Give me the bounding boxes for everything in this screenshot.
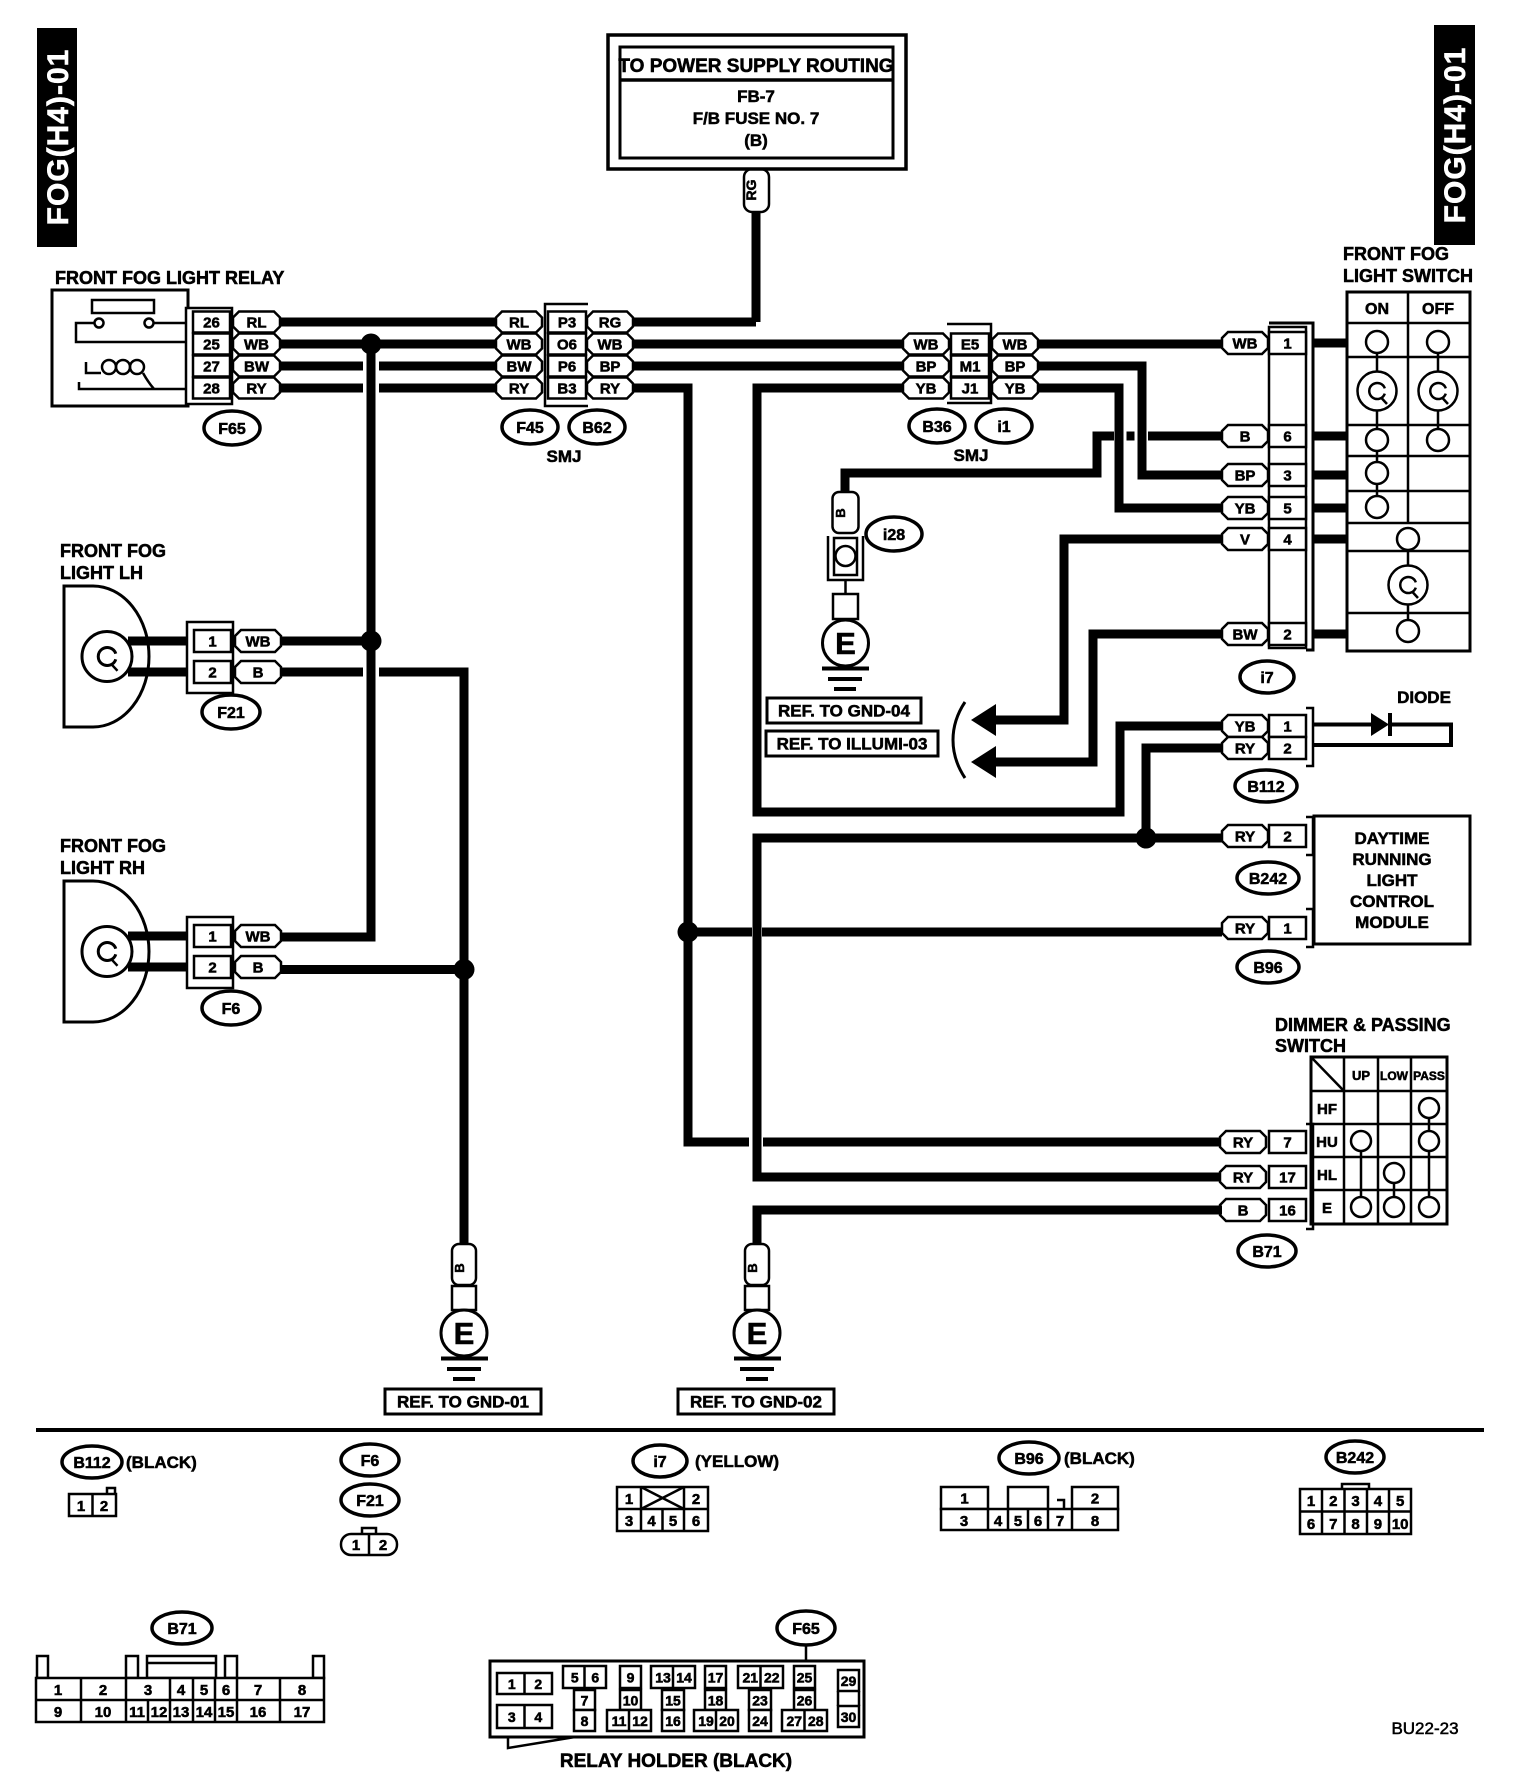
wire B LH to ground (break at crossing)	[281, 672, 464, 1244]
wire BW relay to SMJ (break at crossing)	[280, 362, 497, 371]
svg-text:REF. TO GND-02: REF. TO GND-02	[690, 1393, 822, 1412]
svg-text:7: 7	[1056, 1513, 1064, 1530]
SMJ bracket left	[545, 304, 588, 406]
svg-text:F21: F21	[356, 1493, 384, 1510]
svg-text:14: 14	[196, 1704, 213, 1721]
svg-text:2: 2	[379, 1537, 387, 1554]
SMJ F45/B62 pins left RL WB BW RY	[496, 312, 542, 399]
svg-text:B96: B96	[1014, 1451, 1043, 1468]
svg-text:PASS: PASS	[1413, 1069, 1445, 1083]
title block FOG(H4)-01 right	[1434, 25, 1475, 245]
svg-text:B: B	[253, 664, 264, 681]
svg-text:8: 8	[298, 1682, 306, 1699]
svg-text:2: 2	[1091, 1490, 1099, 1507]
svg-text:E: E	[1322, 1200, 1332, 1217]
svg-text:DIODE: DIODE	[1397, 688, 1451, 707]
svg-text:F65: F65	[218, 421, 246, 438]
DRL module pin RY 1 B96	[1222, 909, 1313, 947]
junction dot WB LH	[361, 631, 382, 652]
svg-text:30: 30	[841, 1709, 857, 1725]
svg-text:B: B	[833, 508, 848, 517]
svg-text:1: 1	[54, 1682, 62, 1699]
svg-text:SWITCH: SWITCH	[1275, 1036, 1346, 1056]
svg-text:1: 1	[508, 1676, 516, 1692]
svg-text:21: 21	[742, 1670, 758, 1686]
front fog light LH label	[60, 541, 166, 583]
svg-text:B: B	[253, 959, 264, 976]
wire B RH	[281, 965, 464, 974]
svg-text:9: 9	[54, 1704, 62, 1721]
wire BP SMJ to SMJ right	[633, 362, 905, 371]
title block FOG(H4)-01 left	[37, 28, 77, 247]
svg-text:FB-7: FB-7	[737, 87, 775, 106]
svg-text:12: 12	[151, 1704, 168, 1721]
svg-text:YB: YB	[1235, 500, 1256, 517]
relay F65 body	[52, 290, 188, 406]
connector label B112	[1235, 770, 1297, 802]
front fog light switch table	[1347, 292, 1470, 651]
ref box GND-02	[678, 1389, 834, 1414]
svg-text:RELAY HOLDER (BLACK): RELAY HOLDER (BLACK)	[560, 1751, 792, 1772]
DRL module pin RY 2 B242	[1222, 817, 1313, 855]
svg-text:B: B	[1238, 1202, 1249, 1219]
svg-text:4: 4	[647, 1513, 656, 1530]
svg-text:25: 25	[797, 1670, 813, 1686]
svg-text:18: 18	[708, 1693, 724, 1709]
svg-text:B96: B96	[1253, 960, 1282, 977]
svg-text:FRONT FOG: FRONT FOG	[60, 836, 166, 856]
svg-text:8: 8	[581, 1713, 589, 1729]
svg-text:6: 6	[591, 1670, 599, 1686]
svg-text:1: 1	[77, 1498, 85, 1515]
dimmer switch table	[1311, 1057, 1447, 1224]
connector label i1	[976, 409, 1032, 443]
svg-text:FRONT FOG: FRONT FOG	[60, 541, 166, 561]
svg-text:3: 3	[1283, 467, 1291, 484]
svg-text:9: 9	[627, 1670, 635, 1686]
svg-text:BW: BW	[244, 358, 270, 375]
svg-text:16: 16	[1279, 1202, 1296, 1219]
connector label B96	[1237, 951, 1299, 983]
wire WB SMJ to switch pin 1	[1038, 340, 1222, 349]
svg-text:10: 10	[95, 1704, 112, 1721]
svg-text:ON: ON	[1365, 301, 1389, 318]
svg-text:RY: RY	[1235, 920, 1255, 937]
junction dot RY branch	[678, 922, 699, 943]
ref box ILLUMI-03	[766, 731, 938, 756]
svg-text:FOG(H4)-01: FOG(H4)-01	[42, 49, 75, 226]
svg-text:2: 2	[534, 1676, 542, 1692]
svg-text:12: 12	[632, 1713, 648, 1729]
svg-text:7: 7	[1283, 1134, 1291, 1151]
svg-text:17: 17	[1279, 1169, 1296, 1186]
svg-text:26: 26	[797, 1693, 813, 1709]
label relay holder	[560, 1751, 792, 1772]
svg-text:B: B	[1240, 428, 1251, 445]
svg-text:B242: B242	[1336, 1450, 1374, 1467]
svg-text:5: 5	[571, 1670, 579, 1686]
svg-text:O6: O6	[557, 336, 577, 353]
svg-text:B3: B3	[557, 380, 576, 397]
svg-text:2: 2	[99, 1682, 107, 1699]
svg-text:SMJ: SMJ	[547, 447, 582, 466]
svg-text:2: 2	[1329, 1493, 1337, 1510]
svg-text:B112: B112	[73, 1455, 110, 1472]
svg-text:3: 3	[1351, 1493, 1359, 1510]
switch contacts lower section	[1389, 528, 1428, 642]
svg-text:4: 4	[1283, 531, 1292, 548]
svg-text:DIMMER & PASSING: DIMMER & PASSING	[1275, 1015, 1451, 1035]
front fog light relay label	[55, 268, 284, 288]
svg-text:1: 1	[960, 1490, 968, 1507]
svg-text:6: 6	[1034, 1513, 1042, 1530]
svg-text:28: 28	[808, 1713, 824, 1729]
svg-text:5: 5	[1283, 500, 1291, 517]
svg-text:YB: YB	[1005, 380, 1026, 397]
svg-text:F45: F45	[516, 420, 544, 437]
ground terminal square i28	[833, 594, 858, 619]
svg-text:RUNNING: RUNNING	[1352, 850, 1431, 869]
wire WB relay to SMJ	[280, 340, 497, 349]
svg-text:HL: HL	[1317, 1167, 1337, 1184]
svg-text:(YELLOW): (YELLOW)	[695, 1452, 779, 1471]
svg-text:16: 16	[665, 1713, 681, 1729]
svg-text:1: 1	[625, 1491, 633, 1508]
svg-text:1: 1	[1283, 718, 1291, 735]
svg-text:2: 2	[100, 1498, 108, 1515]
wire WB SMJ to SMJ right	[633, 340, 905, 349]
svg-text:10: 10	[623, 1693, 639, 1709]
svg-text:17: 17	[294, 1704, 311, 1721]
wire YB diode vertical	[1120, 722, 1222, 731]
svg-text:RY: RY	[1233, 1169, 1253, 1186]
svg-text:24: 24	[752, 1713, 768, 1729]
svg-text:20: 20	[719, 1713, 735, 1729]
svg-text:14: 14	[676, 1670, 692, 1686]
svg-text:RY: RY	[1233, 1134, 1253, 1151]
svg-text:8: 8	[1091, 1513, 1099, 1530]
svg-text:17: 17	[708, 1670, 724, 1686]
dimmer and passing switch label	[1275, 1015, 1451, 1056]
connector label F45	[502, 410, 558, 444]
connector view B96	[941, 1442, 1135, 1530]
svg-text:BP: BP	[916, 358, 937, 375]
svg-text:TO POWER SUPPLY ROUTING: TO POWER SUPPLY ROUTING	[618, 56, 893, 77]
svg-text:2: 2	[692, 1491, 700, 1508]
svg-text:P3: P3	[558, 314, 576, 331]
svg-text:RG: RG	[743, 179, 759, 200]
svg-text:RY: RY	[600, 380, 620, 397]
svg-text:WB: WB	[1233, 335, 1258, 352]
svg-text:B36: B36	[922, 419, 951, 436]
connector view F6 F21	[341, 1444, 399, 1555]
svg-text:13: 13	[173, 1704, 190, 1721]
svg-text:7: 7	[581, 1693, 589, 1709]
arc bracket for ref arrows	[953, 702, 965, 778]
svg-text:6: 6	[1283, 428, 1291, 445]
svg-text:B242: B242	[1249, 871, 1287, 888]
svg-text:E5: E5	[961, 336, 979, 353]
connector label B36	[909, 409, 965, 443]
svg-text:REF. TO ILLUMI-03: REF. TO ILLUMI-03	[777, 735, 928, 754]
svg-text:5: 5	[669, 1513, 677, 1530]
connector view B112	[62, 1446, 197, 1516]
front fog light LH lamp	[64, 586, 196, 727]
svg-text:15: 15	[218, 1704, 235, 1721]
svg-text:1: 1	[1283, 335, 1291, 352]
svg-text:13: 13	[655, 1670, 671, 1686]
svg-text:3: 3	[625, 1513, 633, 1530]
SMJ pins right RG WB BP RY	[587, 312, 633, 399]
wire RL relay to SMJ	[280, 318, 497, 327]
svg-text:i7: i7	[653, 1454, 666, 1471]
wire YB SMJ to switch pin 5	[1038, 388, 1222, 508]
svg-text:15: 15	[665, 1693, 681, 1709]
svg-text:E: E	[454, 1316, 475, 1351]
svg-text:RY: RY	[1235, 828, 1255, 845]
svg-text:BU22-23: BU22-23	[1391, 1719, 1458, 1738]
dimmer connector B71 pins RY 7 RY 17 B 16	[1220, 1124, 1313, 1229]
svg-text:WB: WB	[246, 633, 271, 650]
wire RY relay to SMJ (break at crossing)	[280, 384, 497, 393]
wire YB SMJ left branch to diode	[757, 388, 1222, 812]
svg-text:FRONT FOG: FRONT FOG	[1343, 244, 1449, 264]
connector i28 body	[828, 536, 863, 594]
svg-text:7: 7	[254, 1682, 262, 1699]
diode D1	[1313, 713, 1451, 745]
connector label F6	[202, 991, 260, 1025]
svg-text:SMJ: SMJ	[954, 446, 989, 465]
svg-text:2: 2	[208, 959, 216, 976]
wire B i28 to switch pin 6 (dashes at crossings)	[845, 436, 1222, 492]
svg-text:E: E	[747, 1316, 768, 1351]
connector view B242 grid	[1300, 1441, 1411, 1534]
svg-text:WB: WB	[246, 928, 271, 945]
SMJ B36/i1 pins left WB BP YB	[903, 334, 949, 399]
ground E GND-02	[734, 1244, 781, 1379]
svg-text:LOW: LOW	[1380, 1069, 1409, 1083]
svg-text:YB: YB	[916, 380, 937, 397]
svg-text:5: 5	[200, 1682, 208, 1699]
svg-text:OFF: OFF	[1422, 301, 1454, 318]
svg-text:LIGHT: LIGHT	[1367, 871, 1419, 890]
svg-text:6: 6	[692, 1513, 700, 1530]
svg-text:WB: WB	[598, 336, 623, 353]
wire WB LH branch	[281, 344, 371, 937]
junction dot RY diode	[1136, 828, 1157, 849]
diode connector B112 pins YB RY	[1222, 708, 1313, 766]
svg-text:2: 2	[1283, 740, 1291, 757]
svg-text:UP: UP	[1352, 1068, 1370, 1083]
wire RY diode to junction	[1146, 748, 1222, 838]
svg-text:9: 9	[1374, 1516, 1382, 1533]
SMJ bracket right	[947, 324, 991, 403]
relay pin block F65	[186, 308, 232, 404]
connector label F21	[202, 695, 260, 729]
wire RY B242 row	[757, 838, 1222, 1177]
switch contacts ON column	[1358, 331, 1397, 518]
svg-text:(BLACK): (BLACK)	[1064, 1449, 1135, 1468]
svg-text:BP: BP	[1005, 358, 1026, 375]
svg-text:FOG(H4)-01: FOG(H4)-01	[1439, 47, 1472, 224]
svg-text:23: 23	[752, 1693, 768, 1709]
svg-text:CONTROL: CONTROL	[1350, 892, 1434, 911]
svg-text:3: 3	[508, 1709, 516, 1725]
svg-text:V: V	[1240, 531, 1250, 548]
wire RG to power supply	[752, 212, 761, 322]
svg-text:16: 16	[250, 1704, 267, 1721]
connector view i7	[617, 1445, 779, 1531]
SMJ right pins WB BP YB	[992, 334, 1038, 399]
svg-text:3: 3	[144, 1682, 152, 1699]
wire B 16 to ground	[757, 1210, 1222, 1244]
svg-text:BW: BW	[1233, 626, 1259, 643]
svg-text:(B): (B)	[744, 131, 768, 150]
svg-text:3: 3	[960, 1513, 968, 1530]
label SMJ	[547, 447, 582, 466]
SMJ cells P3 O6 P6 B3	[548, 312, 586, 399]
svg-text:1: 1	[1283, 920, 1291, 937]
svg-text:BW: BW	[507, 358, 533, 375]
svg-text:F21: F21	[217, 705, 245, 722]
svg-text:B71: B71	[1252, 1244, 1281, 1261]
svg-text:25: 25	[203, 336, 220, 353]
ref box GND-01	[385, 1389, 541, 1414]
svg-text:2: 2	[1283, 828, 1291, 845]
svg-text:1: 1	[1307, 1493, 1315, 1510]
dimmer switch contacts	[1351, 1098, 1439, 1217]
svg-text:4: 4	[534, 1709, 542, 1725]
connector label B62	[569, 410, 625, 444]
SMJ cells E5 M1 J1	[951, 334, 989, 399]
svg-text:WB: WB	[914, 336, 939, 353]
front fog light RH connector	[187, 917, 281, 988]
svg-text:RL: RL	[247, 314, 267, 331]
connector label i28	[866, 517, 922, 551]
ground E GND-01	[441, 1244, 488, 1379]
wire BP SMJ to switch pin 3	[1038, 366, 1222, 475]
svg-text:F/B FUSE NO. 7: F/B FUSE NO. 7	[693, 109, 820, 128]
svg-text:WB: WB	[1003, 336, 1028, 353]
ground E i28	[822, 620, 869, 689]
svg-text:B: B	[745, 1263, 760, 1272]
relay holder body	[490, 1661, 864, 1748]
wire V switch pin 4 to GND-04 arrow	[971, 539, 1222, 736]
wire RY SMJ down to junctions	[633, 388, 1220, 1142]
svg-text:22: 22	[764, 1670, 780, 1686]
svg-text:MODULE: MODULE	[1355, 913, 1429, 932]
svg-text:RY: RY	[246, 380, 266, 397]
svg-text:B71: B71	[167, 1621, 196, 1638]
svg-text:1: 1	[208, 928, 216, 945]
svg-text:5: 5	[1396, 1493, 1404, 1510]
svg-text:HF: HF	[1317, 1101, 1337, 1118]
svg-text:RG: RG	[599, 314, 622, 331]
svg-text:RY: RY	[509, 380, 529, 397]
svg-text:LIGHT SWITCH: LIGHT SWITCH	[1343, 266, 1473, 286]
svg-text:4: 4	[994, 1513, 1003, 1530]
connector RG from power supply	[743, 169, 769, 212]
svg-text:LIGHT RH: LIGHT RH	[60, 858, 145, 878]
svg-text:8: 8	[1351, 1516, 1359, 1533]
junction dot WB	[361, 334, 382, 355]
connector view B71	[36, 1612, 324, 1722]
svg-text:11: 11	[612, 1713, 627, 1729]
wire RY branch to B96 (break at crossing)	[688, 928, 1222, 937]
svg-text:5: 5	[1014, 1513, 1022, 1530]
svg-text:i7: i7	[1260, 670, 1273, 687]
front fog light RH label	[60, 836, 166, 878]
switch connector i7 body	[1269, 323, 1313, 650]
connector label B242	[1237, 862, 1299, 894]
svg-text:29: 29	[841, 1673, 857, 1689]
svg-text:6: 6	[222, 1682, 230, 1699]
page ref BU22-23	[1391, 1719, 1458, 1738]
svg-text:19: 19	[698, 1713, 714, 1729]
svg-text:F6: F6	[361, 1453, 380, 1470]
svg-text:WB: WB	[244, 336, 269, 353]
svg-text:B112: B112	[1247, 779, 1284, 796]
svg-text:27: 27	[203, 358, 220, 375]
wire RG SMJ to power feed	[633, 318, 756, 327]
front fog light switch label	[1343, 244, 1473, 286]
svg-text:28: 28	[203, 380, 220, 397]
switch pins WB B BP YB V BW	[1222, 332, 1268, 645]
svg-text:REF. TO GND-01: REF. TO GND-01	[397, 1393, 529, 1412]
connector i28 terminal B	[833, 492, 859, 533]
svg-text:B62: B62	[582, 420, 611, 437]
svg-text:M1: M1	[960, 358, 981, 375]
svg-text:i28: i28	[883, 527, 905, 544]
svg-text:i1: i1	[997, 419, 1010, 436]
svg-text:HU: HU	[1316, 1134, 1338, 1151]
svg-text:J1: J1	[962, 380, 979, 397]
svg-text:10: 10	[1392, 1516, 1409, 1533]
svg-text:WB: WB	[507, 336, 532, 353]
svg-text:26: 26	[203, 314, 220, 331]
svg-text:YB: YB	[1235, 718, 1256, 735]
svg-text:RL: RL	[509, 314, 529, 331]
ref box GND-04	[767, 698, 921, 723]
junction dot B ground	[454, 959, 475, 980]
svg-text:RY: RY	[1235, 740, 1255, 757]
label SMJ right	[954, 446, 989, 465]
svg-text:F65: F65	[792, 1621, 820, 1638]
relay pin terminals RL WB BW RY	[233, 312, 280, 399]
daytime running light control module	[1314, 816, 1470, 944]
svg-text:P6: P6	[558, 358, 576, 375]
svg-text:11: 11	[129, 1704, 145, 1721]
wire stubs connector to switch	[1313, 343, 1348, 634]
svg-text:1: 1	[208, 633, 216, 650]
front fog light RH lamp	[64, 881, 196, 1022]
svg-text:4: 4	[1374, 1493, 1383, 1510]
connector label i7	[1240, 661, 1294, 693]
wire BW switch pin 2 to ILLUMI-03 arrow	[971, 634, 1222, 778]
svg-text:FRONT FOG LIGHT RELAY: FRONT FOG LIGHT RELAY	[55, 268, 284, 288]
front fog light LH connector	[187, 622, 281, 693]
svg-text:1: 1	[352, 1537, 360, 1554]
svg-text:DAYTIME: DAYTIME	[1355, 829, 1430, 848]
connector label F65 holder	[777, 1611, 835, 1663]
svg-text:LIGHT LH: LIGHT LH	[60, 563, 143, 583]
svg-text:2: 2	[1283, 626, 1291, 643]
svg-text:6: 6	[1307, 1516, 1315, 1533]
svg-text:BP: BP	[1235, 467, 1256, 484]
svg-text:B: B	[452, 1263, 467, 1272]
svg-text:27: 27	[786, 1713, 802, 1729]
label DIODE	[1397, 688, 1451, 707]
